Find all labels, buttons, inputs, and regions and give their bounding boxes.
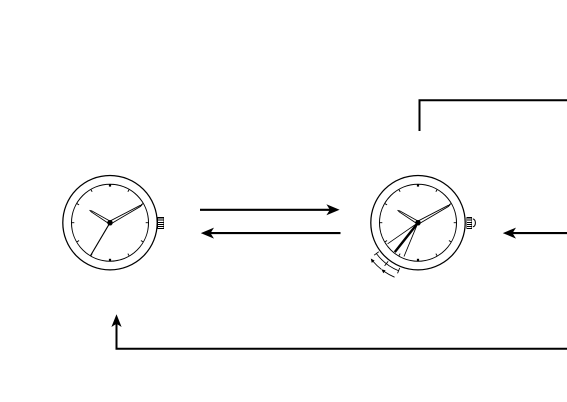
second-interval curved arrow 1 — [373, 261, 381, 269]
watch A index mark 10 o'clock — [77, 204, 79, 205]
watch B index mark 10 o'clock — [385, 204, 387, 205]
second-interval band arc — [376, 254, 398, 271]
watch A index mark 9 o'clock — [72, 222, 75, 224]
arrow left from right edge — [503, 228, 567, 239]
watch B hour hand — [398, 211, 420, 225]
callout bracket top right — [420, 100, 567, 131]
watch B index mark 12 o'clock — [417, 184, 419, 186]
watch B index mark 5 o'clock — [436, 254, 437, 256]
watch A crown — [157, 217, 164, 229]
watch B index mark 2 o'clock — [449, 204, 451, 205]
watch A index mark 6 o'clock — [109, 259, 111, 261]
watch A index mark 3 o'clock — [146, 222, 149, 224]
watch A minute hand — [108, 205, 142, 225]
return arrow bottom (right edge to up arrow) — [111, 314, 567, 349]
watch A index mark 5 o'clock — [128, 254, 129, 256]
second-interval tick at 217.7 deg — [385, 261, 389, 266]
watch A index mark 1 o'clock — [128, 190, 129, 192]
watch A index mark 12 o'clock — [109, 184, 111, 186]
second-interval tick at 202 deg — [398, 268, 400, 273]
second-interval tick at 233.5 deg — [374, 252, 379, 255]
watch B center boss — [415, 220, 420, 225]
watch B index mark 11 o'clock — [399, 190, 400, 192]
watch A case (outer circle) — [63, 176, 157, 270]
watch B second hand ghost position 1 (39 sec) — [388, 223, 418, 244]
watch B index mark 7 o'clock — [399, 254, 400, 256]
watch B index mark 6 o'clock — [417, 259, 419, 261]
watch A index mark 8 o'clock — [77, 241, 79, 242]
arrow right (watch A to watch B) — [200, 204, 340, 215]
watch A center boss — [107, 220, 112, 225]
watch A index mark 7 o'clock — [91, 254, 92, 256]
watch B index mark 1 o'clock — [436, 190, 437, 192]
second-interval curved arrow 2 — [384, 271, 394, 277]
arrow left (watch B to watch A) — [201, 228, 341, 239]
watch A dial (inner circle) — [72, 184, 149, 261]
watch A index mark 11 o'clock — [91, 190, 92, 192]
watch B dial (inner circle) — [380, 184, 457, 261]
watch B index mark 3 o'clock — [454, 222, 457, 224]
watch A index mark 4 o'clock — [141, 241, 143, 242]
watch B minute hand — [416, 205, 450, 225]
watch B index mark 9 o'clock — [380, 222, 383, 224]
watch A second hand (35 sec position) — [90, 223, 110, 256]
watch B second hand ghost position 2 (34 sec) — [404, 223, 418, 257]
watch B index mark 4 o'clock — [449, 241, 451, 242]
watch A index mark 2 o'clock — [141, 204, 143, 205]
watch B index mark 8 o'clock — [385, 241, 387, 242]
watch A hour hand — [90, 211, 112, 225]
watch B second hand (bold, 36 sec) — [395, 223, 418, 252]
watch B crown (pulled out) — [466, 217, 475, 229]
watch B case (outer circle) — [371, 176, 465, 270]
